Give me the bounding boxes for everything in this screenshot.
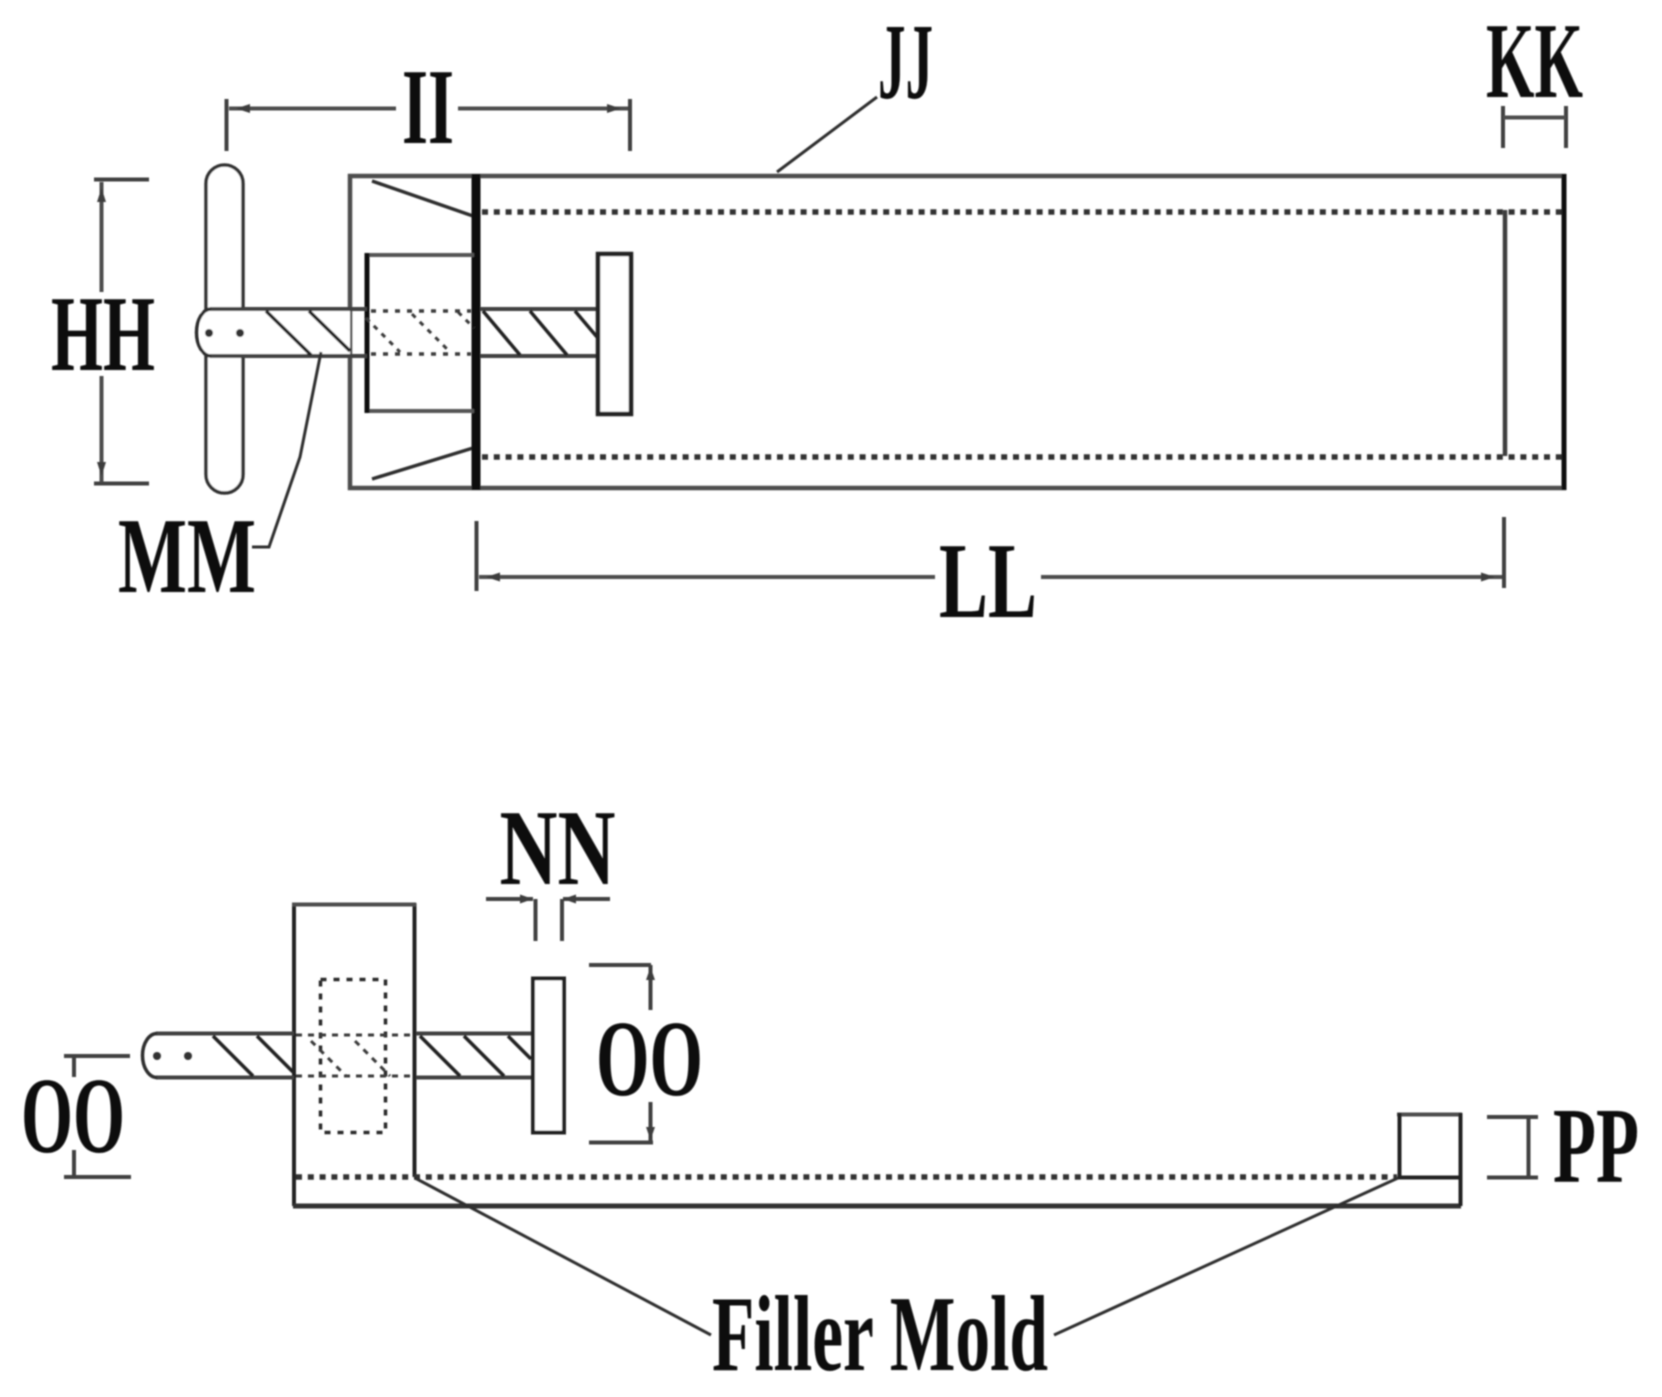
screw rounded cap: [197, 309, 212, 356]
screw shaft right section: [480, 309, 598, 356]
clamp body chamfer bottom: [372, 448, 473, 479]
tube body outline: [350, 174, 1564, 490]
screw hatch left: [266, 311, 350, 355]
dimension PP: [1487, 1087, 1639, 1206]
dimension HH: [51, 180, 155, 484]
svg-text:II: II: [402, 48, 454, 167]
svg-text:MM: MM: [118, 497, 256, 616]
label Filler Mold: [415, 1178, 1398, 1394]
filler mold hidden top line: [296, 1174, 1397, 1180]
clamp body thick right wall: [472, 174, 481, 490]
tube hidden bore line bottom: [482, 454, 1562, 460]
dimension OO left: [21, 1056, 131, 1177]
bottom screw hatch: [213, 1036, 531, 1076]
dimension LL: [477, 517, 1505, 641]
svg-text:Filler Mold: Filler Mold: [712, 1275, 1048, 1394]
nut block: [365, 253, 474, 413]
bottom screw rounded cap: [143, 1034, 158, 1078]
screw hatch right: [483, 311, 597, 355]
bottom screw hidden lines in block: [296, 1035, 414, 1076]
bottom pressure pad: [533, 979, 564, 1133]
screw shaft mask over handle: [200, 311, 350, 354]
screw shaft left section: [210, 309, 367, 356]
T-handle: [206, 165, 243, 493]
dimension NN: [486, 789, 616, 941]
svg-text:JJ: JJ: [878, 3, 933, 122]
filler mold right end square: [1397, 1113, 1462, 1206]
dimension OO right: [589, 965, 703, 1143]
filler mold bottom line: [293, 1204, 1461, 1209]
nut hidden thread line bottom: [371, 352, 471, 356]
dimension KK: [1486, 2, 1583, 148]
clamp body chamfer top: [372, 181, 473, 216]
svg-text:OO: OO: [596, 1000, 703, 1119]
pressure pad: [598, 254, 631, 414]
svg-text:OO: OO: [21, 1057, 125, 1176]
hidden bolt square in block: [321, 980, 386, 1133]
svg-text:LL: LL: [939, 522, 1037, 641]
svg-text:PP: PP: [1553, 1087, 1639, 1206]
svg-text:KK: KK: [1486, 2, 1583, 121]
screw centerline dots: [205, 329, 213, 337]
nut hidden thread line top: [371, 309, 471, 313]
bottom screw centerline dots: [153, 1052, 161, 1060]
bottom screw shaft: [156, 1034, 532, 1078]
svg-text:NN: NN: [500, 789, 616, 908]
nut hidden hatch: [366, 312, 474, 352]
filler mold block: [292, 903, 416, 1206]
tube end plug line: [1503, 210, 1508, 456]
svg-text:HH: HH: [51, 275, 155, 394]
dimension II: [227, 48, 631, 167]
label MM: [118, 352, 321, 616]
label JJ: [777, 3, 933, 172]
tube hidden bore line top: [482, 209, 1562, 215]
